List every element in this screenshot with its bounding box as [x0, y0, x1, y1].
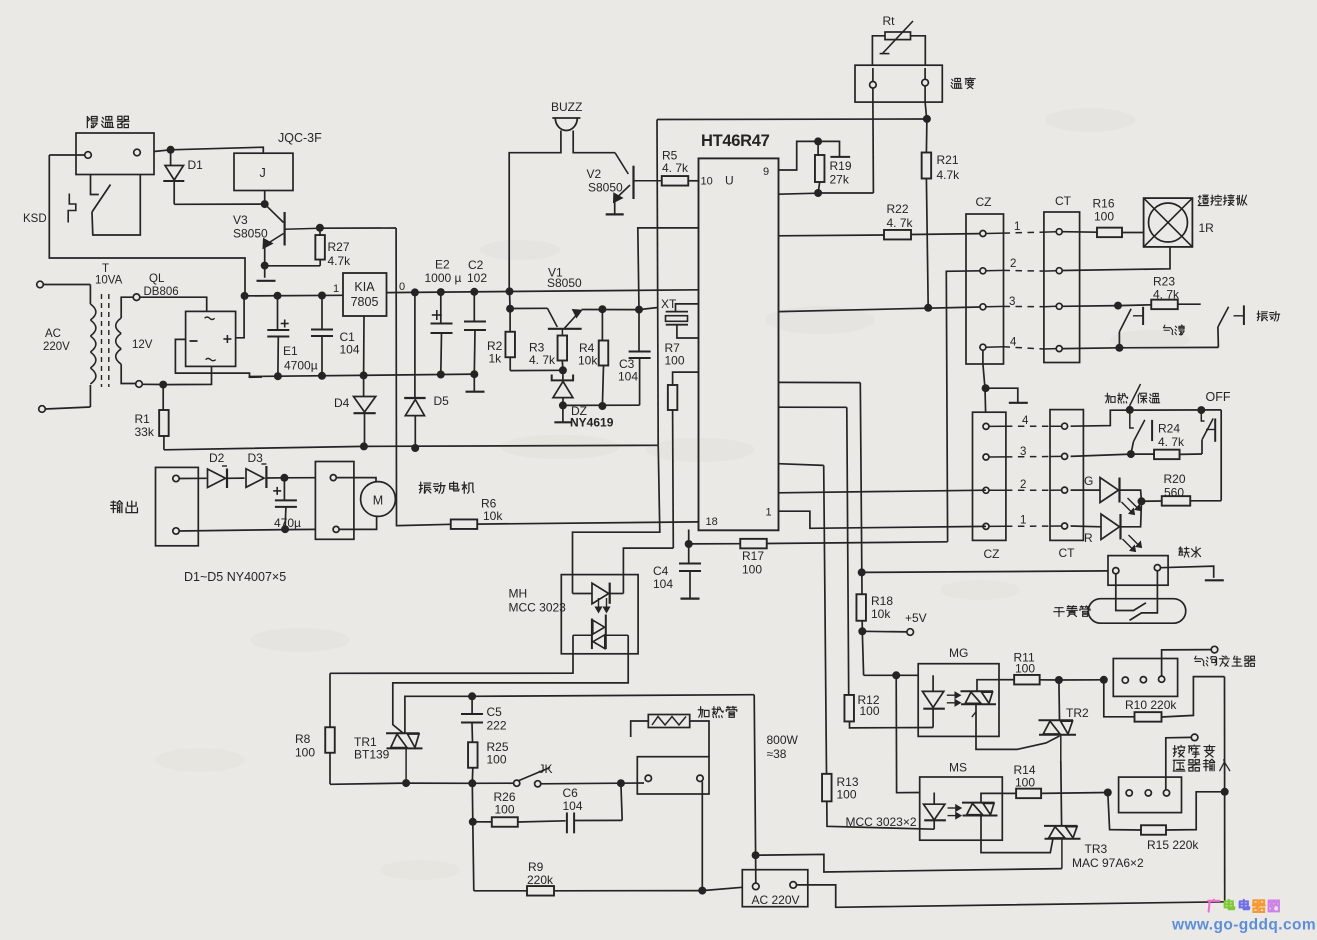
label R3 — [529, 341, 545, 355]
wire pin CZ3 line — [779, 307, 980, 312]
switch OFF — [1201, 410, 1215, 442]
svg-text:BUZZ: BUZZ — [551, 100, 582, 114]
terminal circle — [1154, 565, 1160, 571]
label 保温 — [1138, 393, 1160, 403]
wire — [1063, 231, 1098, 234]
dashed wire — [1004, 347, 1044, 349]
bridge rectifier box — [186, 311, 236, 366]
svg-text:C6: C6 — [563, 786, 579, 800]
terminal circle — [330, 475, 336, 481]
dashed wire — [1006, 525, 1050, 527]
dashed wire — [1006, 456, 1050, 458]
svg-text:4.7k: 4.7k — [328, 254, 352, 268]
label V3 — [233, 213, 248, 227]
resistor R23 — [1118, 300, 1201, 310]
label R26 — [494, 790, 516, 804]
wire AC bottom — [45, 385, 90, 409]
svg-text:1: 1 — [1020, 515, 1026, 527]
resistor R25 — [468, 742, 478, 783]
junction dot — [1104, 789, 1112, 797]
svg-text:QL: QL — [149, 273, 165, 285]
resistor R22 — [779, 230, 980, 240]
svg-text:104: 104 — [563, 799, 583, 813]
buzzer BUZZ — [552, 118, 580, 131]
junction dot R21 bottom — [924, 304, 932, 312]
wire pin below 9 — [779, 193, 819, 194]
connector box 输出 — [156, 467, 199, 545]
label 12V — [132, 339, 153, 351]
terminal circle CZ lower — [983, 454, 989, 460]
label R6 — [481, 497, 497, 511]
svg-text:220k: 220k — [527, 873, 554, 887]
svg-text:D1: D1 — [188, 158, 204, 172]
thermistor Rt — [880, 21, 913, 54]
connector box 气泡 — [1113, 659, 1177, 697]
resistor R24 — [1131, 450, 1202, 460]
label 470u — [274, 516, 301, 530]
switch 振动 — [1218, 305, 1244, 347]
MH coupling arrows — [595, 598, 609, 613]
wire C6 up — [621, 783, 622, 820]
label 100 R25 — [487, 753, 507, 767]
capacitor C2 — [464, 292, 486, 374]
label R19 — [830, 159, 852, 173]
switch JK — [514, 768, 550, 787]
wire secondary top — [121, 297, 133, 318]
label R — [1084, 531, 1093, 545]
svg-text:222: 222 — [487, 719, 507, 733]
svg-text:D1~D5 NY4007×5: D1~D5 NY4007×5 — [184, 570, 286, 584]
resistor R1 — [159, 385, 169, 450]
terminal circle — [697, 775, 703, 781]
junction dot — [167, 146, 175, 154]
wire D1 to V3 node — [174, 203, 265, 205]
svg-text:7805: 7805 — [351, 295, 379, 309]
wire R2 to R3 bottom — [510, 369, 563, 371]
label S8050 V1 — [547, 276, 582, 290]
wire AC right out — [797, 885, 1225, 907]
svg-text:10VA: 10VA — [95, 275, 123, 287]
label 7805 — [351, 295, 379, 309]
label 4.7k R3 — [529, 353, 556, 367]
label 4.7k R24 — [1158, 435, 1185, 449]
label R22 — [887, 202, 909, 216]
wire — [49, 154, 84, 156]
label R23 — [1153, 275, 1175, 289]
MS triac — [962, 803, 998, 816]
wire base line — [510, 307, 547, 309]
label pin 1 KIA — [333, 283, 339, 295]
label MCC 3023x2 — [846, 815, 917, 829]
label R14 — [1014, 763, 1036, 777]
label 加热管 — [698, 706, 737, 717]
label 干簧管 — [1054, 606, 1090, 617]
label KIA — [354, 280, 375, 294]
junction dot AC — [752, 851, 760, 859]
wire J to V3 collector — [264, 191, 266, 205]
junction dot C1 gnd — [318, 372, 326, 380]
junction dot R4 top — [598, 305, 606, 313]
wire heat line — [1071, 410, 1222, 426]
svg-text:4. 7k: 4. 7k — [887, 216, 914, 230]
wire bridge + output — [236, 296, 245, 338]
label HT46R47 — [701, 132, 770, 150]
svg-text:0: 0 — [399, 281, 405, 293]
label E2 — [435, 258, 450, 272]
LED G — [1100, 478, 1120, 503]
svg-text:OFF: OFF — [1206, 390, 1231, 404]
ground — [1205, 579, 1224, 581]
terminal circle 气泡 — [1211, 646, 1218, 653]
motor M — [361, 482, 396, 517]
IR receiver 1R — [1144, 198, 1193, 247]
terminal circle — [645, 775, 651, 781]
label MCC 3023 — [509, 601, 567, 615]
label 10k R4 — [578, 354, 598, 368]
wire R19 to temp — [818, 192, 873, 194]
wire — [473, 822, 474, 891]
wire emitter to ground — [264, 266, 266, 278]
connector box AC220V — [742, 870, 808, 907]
wire V1 base drop — [509, 291, 512, 308]
svg-text:4. 7k: 4. 7k — [1153, 288, 1180, 302]
label 220k R9 — [527, 873, 554, 887]
label OFF — [1206, 390, 1231, 404]
wire pin D vertical — [779, 382, 863, 631]
wire AC loop top — [657, 118, 927, 121]
label 100 R26 — [495, 803, 515, 817]
wire OFF corner down — [1220, 410, 1222, 501]
terminal circle — [790, 882, 797, 889]
svg-text:104: 104 — [618, 370, 638, 384]
label JK — [539, 762, 553, 776]
svg-text:G: G — [1084, 474, 1093, 488]
label 1000u — [425, 271, 462, 285]
svg-text:100: 100 — [1015, 662, 1035, 676]
svg-text:2: 2 — [1010, 258, 1016, 270]
svg-text:XT: XT — [661, 297, 677, 311]
heater element — [648, 715, 689, 728]
connector box 按摩 — [1119, 777, 1182, 813]
pin label 18 — [706, 516, 718, 528]
junction dot — [1127, 450, 1135, 458]
terminal circle CT lower — [1062, 423, 1068, 429]
transformer T primary coil — [90, 304, 96, 384]
junction dot E1 gnd — [274, 372, 282, 380]
pin number 1 — [1020, 515, 1026, 527]
label 100 R8 — [295, 746, 315, 760]
dashed wire — [1006, 425, 1050, 427]
resistor R12 — [844, 695, 854, 722]
svg-text:S8050: S8050 — [588, 181, 623, 195]
slash — [1130, 384, 1141, 406]
label approx38 — [767, 747, 787, 761]
label 10k R18 — [871, 607, 891, 621]
wire AC to TR3 — [756, 854, 1062, 872]
bridge - sign — [190, 340, 198, 342]
junction dot KIA gnd D4 — [360, 371, 368, 379]
wire — [1119, 346, 1218, 348]
resistor R17 — [689, 539, 948, 549]
junction dot — [982, 384, 990, 392]
svg-text:V3: V3 — [233, 213, 248, 227]
label R21 — [937, 153, 959, 167]
svg-text:2: 2 — [1020, 479, 1026, 491]
svg-text:4. 7k: 4. 7k — [529, 353, 556, 367]
dashed wire — [1004, 232, 1044, 233]
label S8050 V3 — [233, 227, 268, 241]
capacitor C5 — [461, 696, 483, 742]
wire R8 bottom — [329, 753, 331, 784]
svg-text:D2: D2 — [209, 451, 225, 465]
junction dot C5 top — [468, 692, 476, 700]
svg-text:100: 100 — [495, 803, 515, 817]
label C2 — [468, 258, 484, 272]
label R15 220k — [1147, 838, 1199, 852]
label R18 — [871, 594, 893, 608]
svg-text:MS: MS — [949, 761, 967, 775]
label 气泡发生器 — [1194, 656, 1255, 666]
thermostat box KSD — [76, 133, 154, 175]
wire DZ to C3 bottom — [563, 404, 640, 406]
label R8 — [295, 732, 311, 746]
wire to bridge top — [140, 297, 207, 311]
optocoupler MS box — [920, 777, 1003, 840]
label 100 R7 — [665, 354, 685, 368]
label R9 — [528, 860, 544, 874]
terminal circle QL top — [133, 294, 140, 301]
MG output top — [977, 680, 999, 691]
junction dot TR1 — [402, 779, 410, 787]
label CZ lower — [984, 547, 1000, 561]
MS output bottom — [981, 816, 1053, 853]
capacitor 470u — [275, 478, 297, 529]
transistor V2 — [615, 153, 662, 199]
terminal circle CZ row — [980, 268, 986, 274]
svg-text:M: M — [373, 494, 383, 508]
label R27 — [328, 240, 350, 254]
wire temp right drop — [925, 102, 927, 119]
label R13 — [837, 775, 859, 789]
label BT139 — [354, 748, 390, 762]
label 27k — [830, 173, 850, 187]
wire — [179, 477, 206, 479]
terminal circle — [870, 82, 877, 89]
wire long vertical to R6 — [396, 228, 398, 526]
svg-text:100: 100 — [837, 788, 857, 802]
MG coupling arrows — [947, 692, 961, 706]
label R11 — [1014, 651, 1035, 665]
wire R7 to MH cathode — [623, 548, 673, 593]
wire gnd stub — [986, 388, 1018, 402]
junction dot E2 top — [437, 288, 445, 296]
label CZ — [976, 195, 992, 209]
label DB806 — [144, 286, 179, 298]
wire stub — [986, 232, 1056, 234]
junction dot — [1114, 302, 1122, 310]
label 100 R16 — [1094, 210, 1114, 224]
label 220V — [43, 341, 70, 353]
resistor R7 — [668, 372, 699, 548]
label 100 R17 — [742, 563, 762, 577]
svg-text:4: 4 — [1010, 337, 1017, 349]
pin label 9 — [763, 166, 769, 178]
label D1-D5 — [184, 570, 286, 584]
resistor R4 — [599, 309, 609, 406]
junction dot C2 gnd — [470, 370, 478, 378]
svg-text:S8050: S8050 — [547, 276, 582, 290]
label KSD — [23, 213, 47, 225]
label G — [1084, 474, 1093, 488]
wire temp left drop — [872, 102, 875, 193]
junction dot JK line — [468, 779, 476, 787]
junction dot C3 top — [635, 306, 643, 314]
heater right lead — [690, 721, 709, 757]
label E1 — [283, 344, 298, 358]
label Rt — [883, 14, 896, 28]
label 104 C4 — [653, 577, 673, 591]
label 10VA — [95, 275, 123, 287]
svg-text:C2: C2 — [468, 258, 484, 272]
wire KSD left drop — [49, 155, 245, 292]
svg-text:MCC 3023×2: MCC 3023×2 — [846, 815, 917, 829]
svg-text:MAC 97A6×2: MAC 97A6×2 — [1072, 856, 1144, 870]
optocoupler MG box — [918, 664, 999, 737]
wire ground bus — [249, 374, 477, 376]
svg-text:33k: 33k — [135, 425, 155, 439]
wire TR1 line right corner — [754, 695, 755, 856]
wire MS anode drop — [896, 675, 920, 792]
svg-text:E1: E1 — [283, 344, 298, 358]
label 104 C6 — [563, 799, 583, 813]
bridge + sign — [223, 335, 231, 343]
pin number 2 — [1010, 258, 1016, 270]
resistor R13 — [822, 774, 832, 802]
MH output right — [393, 635, 628, 733]
wire stub — [989, 489, 1061, 491]
junction dot R3 bottom — [559, 366, 567, 374]
terminal circle — [1122, 677, 1128, 683]
terminal circle CZ lower — [983, 423, 989, 429]
junction dot — [1138, 497, 1146, 505]
label S8050 V2 — [588, 181, 623, 195]
resistor R5 — [662, 176, 699, 186]
svg-text:R16: R16 — [1093, 197, 1115, 211]
MG output bottom — [976, 704, 1060, 749]
svg-text:JQC-3F: JQC-3F — [278, 131, 322, 145]
label JQC-3F — [278, 131, 322, 145]
capacitor E2 — [431, 292, 453, 374]
terminal circle CT row — [1056, 268, 1062, 274]
svg-text:MG: MG — [949, 646, 968, 660]
terminal circle CZ row — [980, 304, 986, 310]
wire stub — [989, 455, 1061, 458]
terminal circle — [173, 528, 179, 534]
MG triac — [961, 691, 997, 717]
svg-text:4. 7k: 4. 7k — [662, 161, 689, 175]
pin number 3 — [1020, 446, 1026, 458]
wire stub — [989, 525, 1061, 527]
wire — [983, 351, 986, 413]
terminal circle CT lower — [1062, 453, 1068, 459]
terminal circle CT lower — [1062, 487, 1068, 493]
label R4 — [579, 341, 595, 355]
label R5 — [662, 149, 678, 163]
ground — [681, 597, 700, 599]
svg-text:100: 100 — [295, 746, 315, 760]
LED G arrows — [1122, 498, 1141, 515]
junction dot V3 collector — [261, 200, 269, 208]
label 1R — [1199, 221, 1215, 235]
label R2 — [487, 339, 503, 353]
label V2 — [587, 167, 602, 181]
svg-text:R19: R19 — [830, 159, 852, 173]
capacitor E2 + sign — [432, 310, 442, 320]
junction dot D5 top — [411, 288, 419, 296]
wire stub — [989, 425, 1061, 427]
wire OFF to R24 — [1201, 440, 1203, 454]
dashed wire — [1004, 305, 1044, 307]
label 100 R11 — [1015, 662, 1035, 676]
label 4.7k R22 — [887, 216, 914, 230]
terminal circle — [1140, 677, 1146, 683]
label 振动电机 — [419, 482, 474, 494]
label C1 — [340, 330, 356, 344]
MH LED — [573, 583, 624, 604]
label D1 — [188, 158, 204, 172]
terminal circle — [85, 152, 92, 159]
terminal circle CZ row — [980, 344, 986, 350]
junction dot V1 node — [506, 287, 514, 295]
wire TR1 JK line — [330, 783, 514, 784]
wire R9 to AC box — [702, 887, 742, 890]
resistor R6 — [398, 519, 699, 529]
wire secondary bottom — [121, 364, 135, 383]
wire R19 stub — [818, 141, 839, 157]
MH output left — [330, 635, 573, 673]
resistor R20 — [1142, 496, 1222, 506]
label U — [725, 174, 734, 188]
label XT — [661, 297, 677, 311]
resistor R16 — [1097, 228, 1144, 238]
label 222 — [487, 719, 507, 733]
label 按摩变 — [1173, 745, 1215, 757]
wire to R1 node — [142, 383, 163, 385]
capacitor C3 — [629, 310, 651, 406]
label R10 220k — [1125, 698, 1177, 712]
reed capsule 干簧管 — [1088, 599, 1186, 624]
V3 emitter — [263, 234, 284, 266]
label 1k — [489, 352, 503, 366]
pin number 2 — [1020, 479, 1026, 491]
IC U HT46R47 box — [699, 158, 779, 530]
ground — [554, 421, 572, 423]
stub bar — [830, 156, 850, 158]
label MS — [949, 761, 967, 775]
label 压器输入 — [1173, 759, 1229, 771]
wire stub — [986, 269, 1056, 272]
svg-text:1R: 1R — [1199, 221, 1215, 235]
wire pin E vertical — [779, 407, 849, 695]
junction dot R26 — [469, 818, 477, 826]
junction dot V3 emitter — [261, 262, 269, 270]
resistor R19 — [815, 141, 825, 193]
svg-text:9: 9 — [763, 166, 769, 178]
wire pin F vertical — [779, 464, 827, 774]
pin number 4 — [1022, 415, 1029, 427]
svg-text:R10 220k: R10 220k — [1125, 698, 1177, 712]
connector box CT — [1044, 212, 1080, 363]
